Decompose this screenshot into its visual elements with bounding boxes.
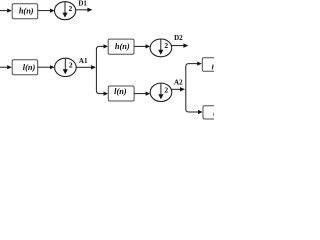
svg-text:l(n): l(n) <box>114 87 127 96</box>
svg-text:D1: D1 <box>78 0 87 8</box>
filter box h(n) level 3 partially cut <box>202 58 228 72</box>
wire output D2 <box>172 43 189 47</box>
svg-text:D2: D2 <box>174 34 183 42</box>
filter box l(n) level 2 <box>108 86 134 101</box>
svg-text:l(n): l(n) <box>23 63 36 72</box>
downsampler ↓2 level 1 high-pass <box>55 2 76 20</box>
wire input to h(n) level 1 <box>0 9 12 13</box>
wire to node A2 <box>171 87 185 91</box>
wire input to l(n) level 1 <box>0 65 12 69</box>
downsampler ↓2 level 2 low-pass <box>150 83 172 101</box>
filter box h(n) level 2 <box>108 39 134 54</box>
wire level 3 branch vertical with turns <box>186 62 203 115</box>
filter box h(n) level 1 <box>12 4 38 19</box>
svg-text:l(n): l(n) <box>213 109 214 117</box>
filter box l(n) level 3 partially cut <box>203 106 229 119</box>
svg-text:h(n): h(n) <box>212 63 214 71</box>
wire l(n) to downsampler level 2 <box>134 92 150 96</box>
wire l(n) to downsampler level 1 <box>38 65 55 69</box>
svg-text:h(n): h(n) <box>19 6 34 15</box>
filter box l(n) level 1 <box>12 60 38 75</box>
downsampler ↓2 level 2 high-pass <box>150 39 172 57</box>
svg-text:A1: A1 <box>79 57 88 65</box>
svg-text:2: 2 <box>164 86 168 95</box>
svg-text:2: 2 <box>69 61 73 70</box>
svg-text:2: 2 <box>164 41 168 50</box>
wire h(n) to downsampler level 1 <box>38 9 55 13</box>
wire output D1 <box>76 8 93 12</box>
wire level 2 branch vertical with top turn to h(n) <box>96 44 108 95</box>
wire to node A1 <box>76 65 96 69</box>
svg-text:A2: A2 <box>174 79 183 87</box>
wire h(n) to downsampler level 2 <box>134 44 150 48</box>
svg-text:h(n): h(n) <box>115 42 130 51</box>
svg-text:2: 2 <box>69 4 73 13</box>
downsampler ↓2 level 1 low-pass <box>55 58 77 76</box>
